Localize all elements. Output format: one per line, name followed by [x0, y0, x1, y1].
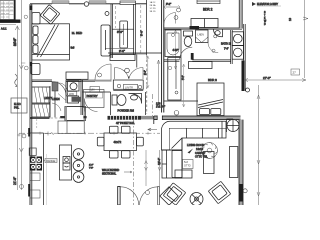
svg-text:27: 27	[293, 71, 297, 75]
walk-in closet hanging rect 2	[32, 104, 50, 117]
french door right leaf	[140, 187, 160, 206]
walk behind note	[102, 169, 132, 176]
window gray band 2	[89, 1, 106, 4]
bookcase east	[230, 147, 238, 178]
linen shelf unit	[52, 82, 58, 91]
svg-text:BDR 3: BDR 3	[208, 78, 217, 82]
svg-text:2B 3A: 2B 3A	[150, 4, 156, 7]
top exterior wall master bedroom	[30, 3, 147, 5]
sectional sofa	[162, 121, 227, 150]
svg-text:27'-0": 27'-0"	[263, 76, 271, 80]
mbath tag circle	[125, 68, 130, 73]
svg-text:7'-6": 7'-6"	[224, 49, 229, 51]
svg-text:42" PICKET RAIL: 42" PICKET RAIL	[116, 122, 135, 125]
cooktop	[30, 157, 42, 171]
svg-text:5'-0": 5'-0"	[140, 30, 144, 36]
closet shelf line	[105, 49, 147, 55]
living room east wall gray	[239, 120, 243, 205]
small appliance	[29, 148, 36, 155]
bathtub	[165, 30, 181, 57]
kitchen upper cabinets	[58, 121, 84, 134]
bdr2 door tags	[177, 8, 181, 12]
otto label box	[183, 160, 194, 169]
tag circle mid-left	[24, 66, 28, 70]
svg-text:8'-0": 8'-0"	[144, 70, 147, 75]
svg-text:5'-2": 5'-2"	[166, 2, 171, 6]
wall section dark mark top-left	[29, 6, 32, 11]
vanity door arc	[208, 43, 218, 53]
pantry closet rect	[84, 90, 105, 108]
svg-text:4'-10": 4'-10"	[173, 50, 179, 52]
bdr3 interior dim line	[182, 64, 185, 107]
wall tag circle 1	[22, 134, 26, 138]
powder room west wall	[110, 92, 112, 115]
washer	[68, 81, 80, 91]
svg-text:OTTO: OTTO	[184, 165, 191, 168]
armoire tall	[101, 25, 110, 56]
chaise ottoman	[172, 151, 192, 179]
round end table	[227, 119, 240, 132]
left margin dimension line	[15, 0, 23, 190]
bath2 door header dark	[190, 26, 200, 30]
kitchen counter west	[43, 133, 45, 205]
svg-text:A-2.1: A-2.1	[1, 28, 7, 31]
mbath double door arcs	[115, 67, 144, 79]
svg-text:W/D: W/D	[69, 92, 74, 96]
svg-text:19'-0": 19'-0"	[157, 158, 161, 165]
elevator door jamb boxes	[60, 116, 65, 118]
dining table	[97, 126, 143, 158]
svg-text:1C 2D: 1C 2D	[150, 8, 157, 10]
small arrow right	[303, 17, 308, 20]
svg-text:SECTIONAL: SECTIONAL	[102, 173, 117, 176]
arrow mark left of living wall	[148, 128, 157, 131]
pantry label	[86, 93, 103, 99]
svg-text:9'-0": 9'-0"	[119, 49, 125, 53]
dresser	[66, 72, 88, 79]
stair strip dim line	[157, 60, 160, 108]
bar stools	[73, 149, 84, 183]
elevator note top right	[252, 2, 281, 6]
pantry door arc	[85, 99, 98, 112]
wall tag circle 2	[20, 185, 24, 189]
living room north wall gray	[154, 116, 241, 124]
laundry closet walls	[66, 80, 83, 115]
bath2 south wall	[164, 60, 231, 61]
svg-text:LIVING ROOM: LIVING ROOM	[187, 143, 204, 147]
svg-text:ELEC: ELEC	[14, 102, 21, 106]
svg-text:TYP: TYP	[89, 168, 94, 170]
walk-in closet hanging rect 1	[32, 87, 50, 103]
small tag circle in closet	[105, 12, 109, 16]
dishwasher	[30, 173, 40, 181]
svg-text:BATH 2: BATH 2	[221, 41, 231, 45]
svg-text:CARPET: CARPET	[195, 151, 206, 155]
nightstand bottom	[31, 64, 40, 75]
master bath area walls	[108, 52, 162, 54]
vertical dim line	[145, 150, 148, 186]
armchair right	[208, 181, 230, 203]
svg-text:RANGE: RANGE	[46, 159, 55, 163]
center line horizontal dashed	[18, 132, 161, 137]
window gray band 1	[52, 1, 69, 4]
sofa arm left lower	[162, 150, 182, 178]
closet east wall	[146, 0, 148, 55]
bath interior dim line	[174, 30, 177, 69]
bath2 door leaf and arc	[180, 47, 194, 60]
closet rod dashed 2	[115, 6, 117, 28]
round table living	[190, 193, 203, 206]
washer stack unit 2	[232, 46, 243, 60]
ceiling fan symbol	[202, 143, 218, 159]
window box top closet	[120, 1, 136, 5]
kitchen sink base	[30, 190, 40, 198]
svg-text:12'-4": 12'-4"	[13, 39, 17, 46]
sofa table	[204, 152, 215, 174]
french door left leaf	[118, 187, 139, 206]
svg-text:16x19: 16x19	[196, 147, 204, 151]
exterior left wall	[30, 4, 32, 205]
mbath wall stub	[136, 54, 138, 67]
hall wall below closet	[30, 117, 50, 118]
svg-text:OTTO TBL: OTTO TBL	[195, 154, 208, 158]
door knob circle	[243, 189, 247, 193]
door tag circle at wall	[174, 111, 179, 116]
nightstand top	[32, 13, 40, 25]
hall door arcs	[52, 83, 68, 111]
svg-text:5'-6": 5'-6"	[117, 30, 123, 34]
deck vertical dim line	[257, 85, 260, 205]
svg-text:POWDER RM: POWDER RM	[118, 109, 134, 113]
powder east wall	[145, 92, 147, 115]
right edge vertical line	[304, 0, 306, 78]
svg-text:M. BED: M. BED	[72, 31, 83, 35]
deck dim line horizontal	[244, 79, 306, 82]
svg-text:LIN/TR: LIN/TR	[125, 86, 133, 89]
svg-text:5'-8": 5'-8"	[183, 75, 185, 80]
svg-text:BDR 2: BDR 2	[203, 8, 213, 12]
south wall gray band	[81, 80, 112, 82]
corner chair rotated	[40, 5, 60, 25]
legend table top-left	[0, 0, 21, 31]
master bedroom east wall	[111, 4, 112, 58]
mbath vanity	[113, 80, 143, 90]
svg-text:LNDRY: LNDRY	[44, 97, 52, 100]
leader squiggle arrow	[15, 74, 18, 87]
mbath south wall	[113, 90, 143, 92]
linen closet bath2	[196, 30, 209, 43]
mbath counter top	[110, 55, 135, 61]
right dim arrows mbath	[147, 56, 150, 88]
svg-text:1A 2C: 1A 2C	[150, 1, 156, 4]
closet wall mid horizontal	[112, 28, 133, 30]
armchair left	[163, 183, 185, 205]
bdr3 armoire	[168, 58, 181, 101]
svg-text:1'-2 3/4": 1'-2 3/4"	[156, 106, 165, 109]
closet east wall	[50, 86, 55, 117]
closet divider wall	[134, 4, 136, 55]
svg-text:LINEN: LINEN	[52, 97, 60, 101]
svg-text:PNL: PNL	[14, 106, 20, 110]
wall section dark mark kitchen	[28, 184, 30, 197]
east wall black section	[242, 61, 245, 92]
east wall bdr area	[244, 24, 246, 91]
bdr2 dresser	[191, 19, 218, 28]
bedroom south wall	[32, 80, 95, 82]
bdr3 bed	[197, 83, 224, 116]
bdr2 window top	[197, 0, 220, 4]
range label with leader	[43, 159, 57, 163]
window tag circle	[84, 2, 88, 6]
door tag 2A	[98, 73, 102, 77]
bdr2 dim arrows	[164, 6, 180, 9]
french door tag circle	[145, 190, 149, 194]
kitchen north counter line	[30, 132, 44, 134]
vertical dash line 2	[152, 94, 154, 116]
pantry walls	[83, 91, 111, 93]
toilet bath2	[184, 31, 193, 47]
svg-text:LIN: LIN	[91, 89, 95, 92]
vertical dash line center	[133, 119, 135, 205]
wic closet door arc	[52, 82, 66, 96]
faucet marks	[45, 132, 54, 136]
svg-text:10: 10	[288, 17, 292, 21]
tiny schedule text block	[150, 1, 157, 13]
washer dryer label box	[68, 92, 77, 96]
small tag circle near wall top	[24, 15, 27, 18]
washer stack unit 1	[232, 32, 243, 46]
svg-text:9x6: 9x6	[71, 47, 76, 50]
svg-text:42x72: 42x72	[114, 140, 122, 144]
bdr3 closet south wall	[164, 100, 198, 102]
closet east wall dashed lower	[146, 55, 148, 114]
demising wall vertical	[162, 0, 164, 113]
powder toilet	[112, 95, 126, 106]
bath2 vanity	[214, 30, 223, 38]
stair rail dark band	[108, 116, 155, 120]
linen rect above powder	[90, 87, 100, 93]
svg-text:LNEN: LNEN	[198, 34, 205, 37]
electrical panel box	[11, 98, 27, 113]
bdr3 dresser	[189, 62, 213, 69]
box 27	[291, 69, 300, 75]
rotated chair bottom right of door	[160, 187, 178, 205]
stacked note text	[264, 12, 267, 26]
bath2 north wall	[164, 28, 242, 29]
wall black bar upper kitchen	[28, 128, 30, 137]
dryer	[68, 96, 81, 103]
short dashed stub	[36, 119, 38, 128]
elevator shaft	[65, 107, 86, 121]
north arrow	[188, 149, 194, 154]
svg-text:3B 1D: 3B 1D	[150, 11, 156, 13]
master bed	[32, 24, 70, 60]
band doorway gap	[157, 115, 162, 120]
island	[60, 145, 72, 180]
powder sink	[129, 94, 142, 104]
wd closet walls	[231, 30, 233, 64]
svg-text:1'-0": 1'-0"	[89, 165, 94, 167]
svg-text:ELEVATOR LOBBY: ELEVATOR LOBBY	[257, 3, 278, 6]
bedroom door arc	[95, 64, 111, 80]
living room label	[187, 143, 208, 158]
svg-text:PANTRY: PANTRY	[87, 94, 98, 98]
closet rod dashed	[140, 5, 142, 54]
svg-text:21'-8": 21'-8"	[13, 177, 17, 185]
knob circle	[246, 88, 250, 92]
